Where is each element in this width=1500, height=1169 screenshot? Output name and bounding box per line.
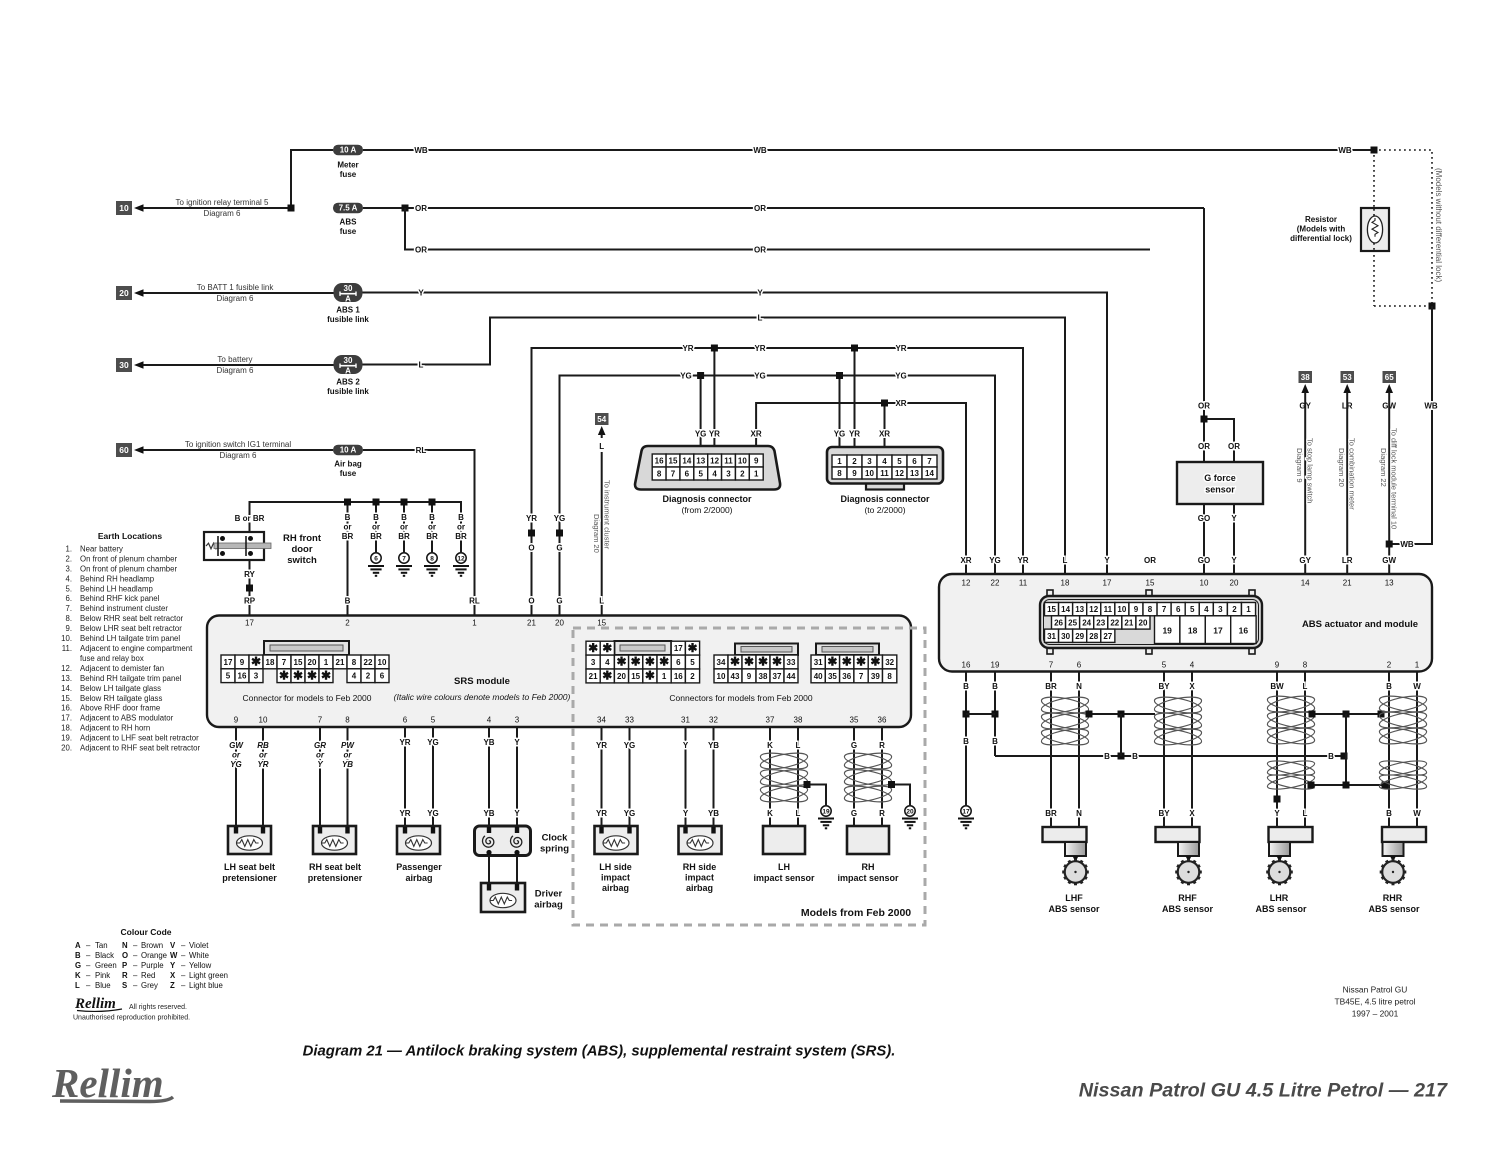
svg-text:Adjacent to engine compartment: Adjacent to engine compartment bbox=[80, 644, 193, 653]
svg-text:spring: spring bbox=[540, 844, 569, 855]
svg-text:W: W bbox=[1413, 809, 1421, 818]
svg-text:8: 8 bbox=[430, 555, 434, 562]
wire WB to GW junction bbox=[1389, 306, 1432, 544]
svg-text:To stop lamp switch: To stop lamp switch bbox=[1306, 438, 1315, 503]
wire shield vertical bbox=[1345, 714, 1347, 785]
RH seat belt pretensioner bbox=[313, 826, 356, 854]
svg-text:33: 33 bbox=[787, 658, 796, 667]
svg-text:32: 32 bbox=[709, 716, 718, 725]
RH front door switch bbox=[204, 532, 264, 560]
svg-text:6.: 6. bbox=[65, 594, 72, 603]
svg-text:BR: BR bbox=[398, 532, 410, 541]
ABS actuator and module box bbox=[939, 574, 1432, 672]
svg-text:Y: Y bbox=[170, 961, 176, 970]
svg-text:30: 30 bbox=[119, 360, 129, 370]
svg-text:Green: Green bbox=[95, 961, 117, 970]
svg-text:YR: YR bbox=[682, 344, 693, 353]
svg-text:Tan: Tan bbox=[95, 941, 108, 950]
svg-text:B: B bbox=[75, 951, 81, 960]
svg-text:White: White bbox=[189, 951, 209, 960]
svg-text:or: or bbox=[400, 523, 408, 532]
svg-text:(to 2/2000): (to 2/2000) bbox=[864, 505, 905, 515]
svg-text:Below LH tailgate glass: Below LH tailgate glass bbox=[80, 684, 161, 693]
svg-text:3: 3 bbox=[726, 470, 731, 479]
svg-text:Y: Y bbox=[683, 741, 689, 750]
svg-text:20: 20 bbox=[308, 658, 317, 667]
svg-text:RL: RL bbox=[469, 597, 480, 606]
svg-text:15: 15 bbox=[597, 619, 606, 628]
svg-text:N: N bbox=[1076, 809, 1082, 818]
svg-text:4: 4 bbox=[352, 672, 357, 681]
svg-text:9: 9 bbox=[1134, 605, 1139, 614]
svg-text:GO: GO bbox=[1198, 556, 1210, 565]
svg-text:X: X bbox=[1189, 809, 1195, 818]
svg-text:9: 9 bbox=[240, 658, 245, 667]
svg-text:WB: WB bbox=[1338, 146, 1352, 155]
svg-text:YB: YB bbox=[708, 741, 719, 750]
node 54 to instrument cluster bbox=[595, 413, 609, 425]
svg-text:Y: Y bbox=[1274, 809, 1280, 818]
svg-text:4: 4 bbox=[882, 457, 887, 466]
svg-text:15: 15 bbox=[669, 457, 678, 466]
svg-text:24: 24 bbox=[1082, 618, 1091, 627]
svg-text:RHR: RHR bbox=[1383, 893, 1403, 903]
svg-text:–: – bbox=[181, 971, 186, 980]
svg-text:or: or bbox=[428, 523, 436, 532]
svg-text:Diagram 6: Diagram 6 bbox=[217, 366, 254, 375]
svg-text:6: 6 bbox=[374, 555, 378, 562]
svg-text:3: 3 bbox=[515, 716, 520, 725]
wire N pin 6 to LHF sensor bbox=[1078, 672, 1080, 828]
svg-text:6: 6 bbox=[380, 672, 385, 681]
fuse ABS 7.5A bbox=[333, 203, 363, 214]
svg-text:1: 1 bbox=[754, 470, 759, 479]
svg-text:1: 1 bbox=[662, 672, 667, 681]
svg-text:Y: Y bbox=[418, 288, 424, 297]
svg-text:RY: RY bbox=[244, 570, 255, 579]
svg-text:✱: ✱ bbox=[758, 655, 768, 669]
svg-text:20: 20 bbox=[906, 808, 914, 815]
twisted pair LHR sensor lower bbox=[1266, 758, 1315, 778]
svg-text:✱: ✱ bbox=[659, 655, 669, 669]
svg-text:–: – bbox=[86, 951, 91, 960]
wire pin 10 to LH pretensioner bbox=[262, 727, 264, 827]
svg-text:Diagram 9: Diagram 9 bbox=[1295, 448, 1304, 483]
svg-text:9.: 9. bbox=[65, 624, 72, 633]
svg-text:4: 4 bbox=[1190, 661, 1195, 670]
svg-text:To ignition relay terminal 5: To ignition relay terminal 5 bbox=[176, 198, 269, 207]
svg-text:16: 16 bbox=[1239, 626, 1249, 636]
svg-text:14: 14 bbox=[925, 469, 934, 478]
svg-text:38: 38 bbox=[1301, 373, 1310, 382]
svg-text:✱: ✱ bbox=[307, 668, 317, 682]
svg-text:Behind RHF kick panel: Behind RHF kick panel bbox=[80, 594, 160, 603]
svg-text:Below RH tailgate glass: Below RH tailgate glass bbox=[80, 694, 162, 703]
earth 20 RHF seat belt retractor bbox=[905, 806, 915, 816]
svg-text:38: 38 bbox=[794, 716, 803, 725]
svg-text:18: 18 bbox=[1061, 579, 1070, 588]
svg-text:Rellim: Rellim bbox=[51, 1060, 164, 1106]
svg-text:fuse: fuse bbox=[340, 170, 357, 179]
wire WB dotted bypass models without diff lock bbox=[1374, 150, 1432, 306]
svg-text:or: or bbox=[344, 751, 353, 760]
svg-text:–: – bbox=[86, 971, 91, 980]
svg-text:B: B bbox=[373, 513, 379, 522]
svg-text:K: K bbox=[75, 971, 81, 980]
svg-text:(from 2/2000): (from 2/2000) bbox=[681, 505, 732, 515]
svg-text:2.: 2. bbox=[65, 555, 72, 564]
svg-text:YG: YG bbox=[427, 809, 439, 818]
svg-text:30: 30 bbox=[1061, 632, 1070, 641]
svg-text:TB45E, 4.5 litre petrol: TB45E, 4.5 litre petrol bbox=[1335, 997, 1416, 1007]
svg-text:3: 3 bbox=[1218, 605, 1223, 614]
wire node60 to air bag fuse bbox=[143, 449, 333, 451]
svg-text:fusible link: fusible link bbox=[327, 387, 369, 396]
svg-text:SRS module: SRS module bbox=[454, 676, 510, 687]
svg-text:18: 18 bbox=[1188, 626, 1198, 636]
svg-text:✱: ✱ bbox=[588, 641, 598, 655]
svg-text:✱: ✱ bbox=[730, 655, 740, 669]
svg-text:B: B bbox=[1386, 809, 1392, 818]
node 10 to ignition relay terminal 5 bbox=[116, 201, 132, 215]
svg-text:BY: BY bbox=[1158, 682, 1170, 691]
svg-text:✱: ✱ bbox=[602, 641, 612, 655]
svg-text:fuse: fuse bbox=[340, 469, 357, 478]
svg-text:ABS: ABS bbox=[340, 218, 358, 227]
svg-text:7: 7 bbox=[927, 457, 932, 466]
svg-text:11: 11 bbox=[724, 457, 733, 466]
svg-text:17: 17 bbox=[1213, 626, 1223, 636]
svg-text:LH seat belt: LH seat belt bbox=[224, 862, 275, 872]
svg-text:XR: XR bbox=[879, 430, 890, 439]
svg-text:B: B bbox=[1104, 752, 1110, 761]
svg-text:7.: 7. bbox=[65, 604, 72, 613]
svg-text:34: 34 bbox=[597, 716, 606, 725]
svg-text:OR: OR bbox=[1144, 556, 1156, 565]
wire Y pin 31 to RH side airbag bbox=[685, 727, 687, 827]
svg-text:(Italic wire colours denote mo: (Italic wire colours denote models to Fe… bbox=[394, 692, 571, 702]
svg-text:ABS 1: ABS 1 bbox=[336, 306, 360, 315]
svg-text:10: 10 bbox=[1200, 579, 1209, 588]
svg-text:fusible link: fusible link bbox=[327, 315, 369, 324]
svg-text:YG: YG bbox=[989, 556, 1001, 565]
svg-text:22: 22 bbox=[364, 658, 373, 667]
svg-text:YR: YR bbox=[596, 741, 607, 750]
svg-text:16: 16 bbox=[655, 457, 664, 466]
svg-text:7: 7 bbox=[402, 555, 406, 562]
svg-text:Y: Y bbox=[683, 809, 689, 818]
svg-text:OR: OR bbox=[754, 245, 766, 254]
svg-text:–: – bbox=[133, 961, 138, 970]
svg-text:Yellow: Yellow bbox=[189, 961, 212, 970]
svg-text:14.: 14. bbox=[61, 684, 72, 693]
svg-text:L: L bbox=[599, 442, 604, 451]
wire L pin 8 to LHR sensor bbox=[1304, 672, 1306, 828]
svg-text:Z: Z bbox=[170, 981, 175, 990]
svg-text:airbag: airbag bbox=[534, 900, 563, 911]
svg-text:Behind RH headlamp: Behind RH headlamp bbox=[80, 574, 155, 583]
svg-text:Y: Y bbox=[1231, 556, 1237, 565]
svg-text:✱: ✱ bbox=[645, 669, 655, 683]
twisted pair LHF sensor bbox=[1040, 694, 1090, 716]
svg-text:GO: GO bbox=[1198, 514, 1210, 523]
LH seat belt pretensioner bbox=[228, 826, 271, 854]
svg-text:✱: ✱ bbox=[772, 655, 782, 669]
wire X pin 4 to RHF sensor bbox=[1191, 672, 1193, 828]
svg-text:LH: LH bbox=[778, 862, 790, 872]
svg-text:OR: OR bbox=[754, 204, 766, 213]
svg-text:Below LHR seat belt retractor: Below LHR seat belt retractor bbox=[80, 624, 182, 633]
wire L to SRS pin 15 bbox=[601, 452, 603, 618]
svg-text:6: 6 bbox=[1176, 605, 1181, 614]
svg-text:8: 8 bbox=[352, 658, 357, 667]
svg-text:33: 33 bbox=[625, 716, 634, 725]
SRS connector for models to Feb 2000 bbox=[264, 641, 349, 655]
svg-text:✱: ✱ bbox=[321, 668, 331, 682]
svg-text:10 A: 10 A bbox=[340, 146, 357, 155]
wire R pin 36 to RH impact sensor bbox=[881, 727, 883, 826]
svg-text:XR: XR bbox=[960, 556, 971, 565]
svg-text:BR: BR bbox=[1045, 682, 1057, 691]
svg-text:18.: 18. bbox=[61, 724, 72, 733]
wire YR diag connector 1 bbox=[713, 348, 715, 446]
wire OR ABS fuse to G force sensor bbox=[363, 207, 1204, 209]
wire BW pin 9 to LHR sensor bbox=[1276, 672, 1278, 828]
svg-text:–: – bbox=[86, 981, 91, 990]
svg-text:60: 60 bbox=[119, 445, 129, 455]
svg-text:16: 16 bbox=[962, 661, 971, 670]
svg-text:31: 31 bbox=[681, 716, 690, 725]
svg-text:14: 14 bbox=[682, 457, 691, 466]
wire YG diag connector 1 bbox=[700, 376, 702, 447]
twisted pair RHF sensor bbox=[1153, 694, 1203, 716]
svg-text:15: 15 bbox=[631, 672, 640, 681]
svg-text:Connectors for models from Feb: Connectors for models from Feb 2000 bbox=[669, 693, 812, 703]
wire L ABS2 to ABS module pin 18 bbox=[363, 318, 1066, 575]
svg-text:Behind LH headlamp: Behind LH headlamp bbox=[80, 584, 153, 593]
svg-text:5: 5 bbox=[897, 457, 902, 466]
wire WB meter fuse to right bbox=[363, 149, 1374, 151]
svg-text:3: 3 bbox=[254, 672, 259, 681]
svg-text:W: W bbox=[1413, 682, 1421, 691]
svg-text:8: 8 bbox=[657, 470, 662, 479]
svg-text:2: 2 bbox=[740, 470, 745, 479]
svg-text:impact sensor: impact sensor bbox=[837, 873, 899, 883]
svg-text:RB: RB bbox=[257, 741, 269, 750]
earth 17 adjacent to ABS modulator bbox=[961, 806, 971, 816]
svg-text:Purple: Purple bbox=[141, 961, 164, 970]
ABS module connector bbox=[1047, 590, 1053, 598]
svg-text:Y: Y bbox=[1104, 556, 1110, 565]
svg-text:8: 8 bbox=[1303, 661, 1308, 670]
svg-text:B: B bbox=[429, 513, 435, 522]
svg-text:Colour Code: Colour Code bbox=[121, 927, 172, 937]
svg-text:17: 17 bbox=[1103, 579, 1112, 588]
svg-text:10: 10 bbox=[717, 672, 726, 681]
svg-text:Diagram 20: Diagram 20 bbox=[1337, 448, 1346, 487]
wire node20 to ABS1 fusible link bbox=[143, 292, 334, 294]
svg-text:Air bag: Air bag bbox=[334, 460, 362, 469]
svg-text:L: L bbox=[1303, 809, 1308, 818]
svg-text:40: 40 bbox=[814, 672, 823, 681]
twisted pair LH impact sensor bbox=[759, 750, 809, 772]
svg-text:To battery: To battery bbox=[217, 355, 252, 364]
svg-text:43: 43 bbox=[731, 672, 740, 681]
svg-text:9: 9 bbox=[754, 457, 759, 466]
svg-text:YB: YB bbox=[342, 760, 353, 769]
svg-text:7: 7 bbox=[1049, 661, 1054, 670]
svg-text:1: 1 bbox=[837, 457, 842, 466]
svg-text:–: – bbox=[133, 941, 138, 950]
svg-text:18: 18 bbox=[266, 658, 275, 667]
svg-text:–: – bbox=[86, 961, 91, 970]
node 30 to battery bbox=[116, 358, 132, 372]
svg-text:1: 1 bbox=[1246, 605, 1251, 614]
wire B pin 19 to earth bus bbox=[994, 672, 996, 757]
svg-text:1: 1 bbox=[472, 619, 477, 628]
svg-text:R: R bbox=[122, 971, 128, 980]
svg-text:differential lock): differential lock) bbox=[1290, 234, 1352, 243]
svg-text:10: 10 bbox=[378, 658, 387, 667]
svg-text:B: B bbox=[1132, 752, 1138, 761]
LH impact sensor bbox=[763, 826, 805, 854]
svg-text:30: 30 bbox=[344, 284, 353, 293]
svg-text:6: 6 bbox=[403, 716, 408, 725]
svg-text:or: or bbox=[232, 751, 241, 760]
svg-text:G force: G force bbox=[1204, 473, 1236, 483]
svg-text:–: – bbox=[181, 961, 186, 970]
svg-text:11: 11 bbox=[1104, 605, 1113, 614]
svg-text:BR: BR bbox=[1045, 809, 1057, 818]
svg-text:2: 2 bbox=[1387, 661, 1392, 670]
svg-text:1.: 1. bbox=[65, 545, 72, 554]
svg-text:4: 4 bbox=[487, 716, 492, 725]
wire YG pin 33 to LH side airbag bbox=[629, 727, 631, 827]
svg-text:6: 6 bbox=[912, 457, 917, 466]
wire OR branch to ABS module pin 15 bbox=[405, 208, 1150, 250]
node 53 to combination meter bbox=[1341, 371, 1355, 383]
svg-text:21: 21 bbox=[589, 672, 598, 681]
svg-text:ABS sensor: ABS sensor bbox=[1255, 904, 1307, 914]
svg-text:LR: LR bbox=[1342, 556, 1353, 565]
svg-text:Adjacent to RH horn: Adjacent to RH horn bbox=[80, 724, 150, 733]
clock spring bbox=[475, 826, 531, 856]
svg-text:G: G bbox=[851, 809, 857, 818]
svg-text:35: 35 bbox=[850, 716, 859, 725]
svg-text:L: L bbox=[419, 360, 424, 369]
svg-text:4: 4 bbox=[605, 658, 610, 667]
wire Y pin 3 to clock spring bbox=[516, 727, 518, 826]
wire B link pins 16-19 bbox=[966, 713, 995, 715]
svg-text:19: 19 bbox=[1162, 626, 1172, 636]
wire shield to earth 19 bbox=[807, 785, 826, 806]
svg-text:2: 2 bbox=[690, 672, 695, 681]
svg-text:YR: YR bbox=[754, 344, 765, 353]
svg-text:L: L bbox=[599, 597, 604, 606]
wire L pin 38 to LH impact sensor bbox=[797, 727, 799, 826]
svg-text:✱: ✱ bbox=[251, 655, 261, 669]
svg-text:20: 20 bbox=[617, 672, 626, 681]
svg-text:YG: YG bbox=[834, 430, 846, 439]
svg-text:37: 37 bbox=[773, 672, 782, 681]
svg-text:(Models without differential l: (Models without differential lock) bbox=[1434, 168, 1443, 282]
twisted pair RH impact sensor bbox=[843, 750, 893, 772]
svg-text:A: A bbox=[75, 941, 81, 950]
svg-text:or: or bbox=[372, 523, 380, 532]
svg-text:Driver: Driver bbox=[535, 889, 563, 900]
svg-text:Pink: Pink bbox=[95, 971, 110, 980]
svg-text:21: 21 bbox=[1343, 579, 1352, 588]
earth 19 LHF seat belt retractor bbox=[821, 806, 831, 816]
svg-text:12: 12 bbox=[895, 469, 904, 478]
svg-text:(Models with: (Models with bbox=[1297, 225, 1346, 234]
svg-text:WB: WB bbox=[414, 146, 428, 155]
svg-text:sensor: sensor bbox=[1205, 485, 1235, 495]
fusible link ABS 2 30A bbox=[334, 355, 363, 374]
svg-text:O: O bbox=[528, 544, 534, 553]
svg-text:Y: Y bbox=[514, 809, 520, 818]
svg-text:YR: YR bbox=[709, 430, 720, 439]
svg-text:L: L bbox=[75, 981, 80, 990]
svg-text:25: 25 bbox=[1068, 618, 1077, 627]
svg-text:L: L bbox=[796, 809, 801, 818]
svg-text:R: R bbox=[879, 809, 885, 818]
svg-text:Grey: Grey bbox=[141, 981, 158, 990]
svg-text:16: 16 bbox=[674, 672, 683, 681]
svg-text:3.: 3. bbox=[65, 564, 72, 573]
svg-text:R: R bbox=[879, 741, 885, 750]
svg-text:–: – bbox=[86, 941, 91, 950]
earth 7 bbox=[403, 502, 405, 552]
svg-text:3: 3 bbox=[591, 658, 596, 667]
passenger airbag bbox=[397, 826, 440, 854]
svg-text:10: 10 bbox=[259, 716, 268, 725]
svg-text:21: 21 bbox=[1124, 618, 1133, 627]
fusible link ABS 1 30A bbox=[334, 283, 363, 302]
earth 8 bbox=[431, 502, 433, 552]
svg-text:Below RHR seat belt retractor: Below RHR seat belt retractor bbox=[80, 614, 184, 623]
svg-text:G: G bbox=[75, 961, 81, 970]
svg-text:fuse: fuse bbox=[340, 227, 357, 236]
svg-text:YG: YG bbox=[624, 741, 636, 750]
wire shield to earth 20 bbox=[892, 785, 911, 806]
svg-text:GW: GW bbox=[229, 741, 244, 750]
svg-text:YG: YG bbox=[895, 371, 907, 380]
svg-text:32: 32 bbox=[885, 658, 894, 667]
svg-text:Models from Feb 2000: Models from Feb 2000 bbox=[801, 907, 911, 919]
wire YG pin 5 to passenger airbag bbox=[432, 727, 434, 827]
svg-text:YG: YG bbox=[680, 371, 692, 380]
svg-text:fuse and relay box: fuse and relay box bbox=[80, 654, 144, 663]
svg-text:7: 7 bbox=[282, 658, 287, 667]
svg-text:impact: impact bbox=[601, 873, 630, 883]
earth 6 bbox=[375, 502, 377, 552]
svg-text:B or BR: B or BR bbox=[235, 514, 265, 523]
svg-text:6: 6 bbox=[1077, 661, 1082, 670]
svg-text:L: L bbox=[1303, 682, 1308, 691]
svg-text:–: – bbox=[181, 941, 186, 950]
svg-text:YG: YG bbox=[754, 371, 766, 380]
svg-text:airbag: airbag bbox=[405, 873, 432, 883]
svg-text:Light blue: Light blue bbox=[189, 981, 223, 990]
svg-text:S: S bbox=[122, 981, 127, 990]
svg-text:10: 10 bbox=[1117, 605, 1126, 614]
svg-text:YG: YG bbox=[230, 760, 242, 769]
svg-text:✱: ✱ bbox=[293, 668, 303, 682]
svg-text:Adjacent to ABS modulator: Adjacent to ABS modulator bbox=[80, 714, 174, 723]
svg-text:BR: BR bbox=[370, 532, 382, 541]
svg-text:ABS actuator and module: ABS actuator and module bbox=[1302, 619, 1418, 630]
